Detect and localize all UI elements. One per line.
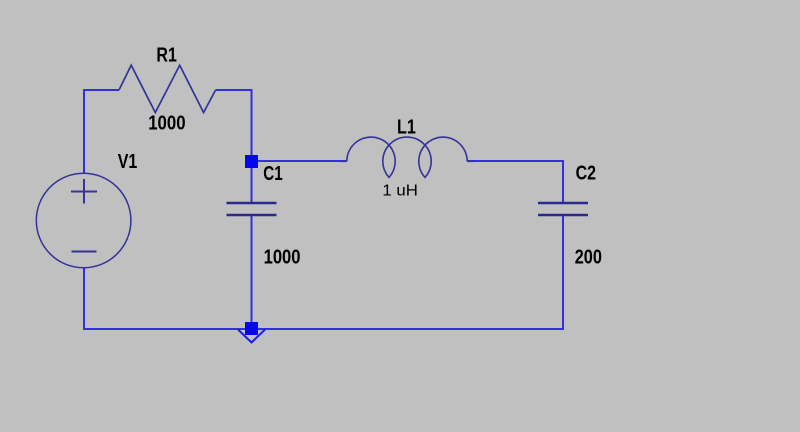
wire — [562, 215, 564, 330]
svg-text:1 uH: 1 uH — [382, 182, 417, 200]
svg-text:C2: C2 — [576, 162, 596, 184]
wire — [251, 89, 253, 156]
wire — [216, 89, 252, 91]
junction node (ground) — [245, 322, 258, 335]
wire — [83, 268, 85, 330]
svg-text:R1: R1 — [156, 44, 176, 66]
wire — [84, 89, 119, 91]
svg-text:1000: 1000 — [264, 245, 301, 268]
wire — [251, 215, 253, 323]
resistor R1 — [119, 65, 216, 112]
wire — [257, 328, 564, 330]
svg-text:V1: V1 — [118, 150, 138, 172]
junction node (C1 top) — [245, 155, 258, 168]
wire — [467, 160, 563, 162]
svg-text:1000: 1000 — [148, 111, 185, 134]
voltage source V1 — [36, 173, 131, 268]
inductor L1 — [340, 137, 474, 177]
wire — [83, 89, 85, 173]
svg-text:200: 200 — [575, 245, 602, 268]
ground — [238, 330, 265, 343]
capacitor C1 — [227, 203, 277, 215]
svg-text:C1: C1 — [263, 162, 283, 185]
wire — [562, 160, 564, 203]
svg-text:L1: L1 — [397, 116, 416, 138]
capacitor C2 — [538, 203, 588, 215]
wire — [257, 160, 347, 162]
wire — [83, 328, 246, 330]
wire — [251, 167, 253, 203]
